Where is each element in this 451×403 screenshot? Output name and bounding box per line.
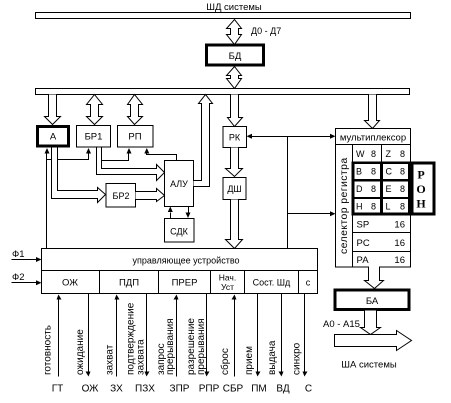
svg-text:8: 8 [371, 184, 376, 194]
svg-text:РА: РА [357, 255, 370, 266]
svg-text:ВД: ВД [276, 384, 289, 395]
component control unit управляющее устройство [42, 249, 318, 294]
svg-text:Сост. Шд: Сост. Шд [253, 278, 291, 288]
svg-text:выдача: выдача [267, 340, 278, 375]
svg-text:РК: РК [229, 133, 241, 143]
svg-text:прерывания: прерывания [196, 318, 207, 375]
buffer БА address buffer [335, 290, 409, 310]
node label Ф1 with arrow [12, 249, 42, 262]
svg-text:синхро: синхро [292, 342, 303, 375]
svg-text:прием: прием [244, 346, 255, 375]
svg-text:16: 16 [394, 255, 405, 266]
wire arrow bus2-РП bidirectional [128, 95, 143, 125]
wire arrow bus2-БР1 bidirectional [87, 95, 103, 125]
component ДШ decoder [223, 178, 246, 200]
wire arrow bus2 to A [45, 95, 61, 125]
wire signal сброс input [232, 295, 237, 377]
wire arrow РК to ДШ [226, 148, 243, 177]
wire arrow bus2 down to РК [228, 95, 243, 127]
svg-text:PC: PC [357, 238, 370, 249]
svg-text:W: W [356, 149, 365, 159]
node cell Нач Уст [219, 271, 245, 294]
wire long line from A node down to control unit [46, 160, 48, 249]
svg-text:захвата: захвата [136, 339, 147, 375]
wire arrow bus1-BD bidirectional [227, 20, 242, 45]
svg-text:прерывания: прерывания [165, 318, 176, 375]
wire signal ожидание output [86, 294, 91, 377]
svg-text:16: 16 [394, 220, 405, 231]
wire signal готовность input [57, 295, 62, 377]
svg-text:сброс: сброс [219, 348, 231, 375]
node cell Сост Шд [253, 271, 299, 294]
wire internal bus bar [36, 89, 410, 95]
svg-text:А0 - А15: А0 - А15 [323, 319, 360, 330]
wire junction vertical down to control unit [287, 137, 289, 249]
wire signal прием output [256, 294, 261, 377]
op-amp АЛУ arithmetic-logic unit box [165, 161, 194, 207]
svg-text:ШД системы: ШД системы [206, 2, 262, 13]
register БР1 [77, 126, 111, 148]
wire feedback into РП left arrow [102, 148, 132, 161]
svg-text:ГТ: ГТ [52, 384, 64, 395]
svg-text:мультиплексор: мультиплексор [340, 133, 406, 144]
node bottom pin labels ГТ ОЖ ЗХ ПЗХ ЗПР РПР СБР ПМ ВД С [52, 384, 312, 395]
svg-text:8: 8 [400, 202, 405, 212]
wire system data bus bar [36, 13, 411, 19]
svg-text:ОЖ: ОЖ [82, 384, 100, 395]
wire signal синхро output [303, 294, 308, 377]
svg-text:8: 8 [371, 149, 376, 159]
svg-text:Z: Z [386, 149, 392, 159]
wire system address bus big arrow [335, 331, 412, 351]
svg-text:ЗХ: ЗХ [110, 384, 123, 395]
svg-text:БА: БА [366, 296, 379, 307]
svg-text:Д0 - Д7: Д0 - Д7 [251, 26, 281, 36]
svg-text:D: D [356, 184, 363, 194]
svg-text:8: 8 [371, 167, 376, 177]
svg-text:захват: захват [105, 344, 116, 375]
wire arrow АЛУ output up to internal bus [194, 95, 213, 187]
register РК instruction register [223, 127, 247, 148]
node РОН side label box [412, 163, 434, 214]
wire signal разрешение прерывания output [205, 294, 210, 377]
node multiplexer title [336, 133, 411, 145]
wire arrow БА down to address bus [361, 311, 381, 335]
svg-text:Уст: Уст [221, 282, 234, 292]
wire arrow БР1 to АЛУ L-shaped [97, 148, 165, 181]
wire АЛУ-СДК up line [168, 207, 173, 219]
svg-text:C: C [386, 167, 393, 177]
svg-text:с: с [306, 278, 311, 288]
wire arrow A to БР2 L-shaped [52, 148, 106, 203]
svg-text:Ф2: Ф2 [12, 272, 25, 283]
svg-text:готовность: готовность [43, 325, 54, 375]
svg-text:Н: Н [416, 197, 426, 211]
wire arrow bus2 down to multiplexer [365, 95, 380, 129]
svg-text:АЛУ: АЛУ [170, 179, 188, 189]
wire arrow БР2 to АЛУ [136, 189, 165, 202]
svg-text:8: 8 [400, 184, 405, 194]
svg-text:8: 8 [371, 202, 376, 212]
wire feedback line into A and БР1 with arrows [45, 148, 92, 160]
svg-text:БД: БД [229, 51, 242, 62]
svg-text:управляющее устройство: управляющее устройство [132, 256, 239, 266]
node register selector column rotated label [338, 145, 353, 267]
wire arrow BD-bus2 bidirectional [227, 67, 242, 89]
svg-text:ЗПР: ЗПР [170, 384, 190, 395]
wire АЛУ top to РП right arrow [144, 148, 176, 161]
node cell ПДП [119, 271, 159, 294]
svg-text:ПРЕР: ПРЕР [172, 278, 198, 289]
node РОН bold register group B C D E H L [353, 163, 410, 214]
svg-text:А: А [50, 132, 57, 143]
node cell ОЖ [62, 271, 99, 294]
svg-text:Р: Р [417, 168, 424, 182]
wire arrow ДШ to control unit [226, 200, 243, 249]
svg-text:О: О [416, 182, 425, 196]
svg-text:Нач.: Нач. [219, 273, 236, 283]
wire signal выдача output [279, 294, 284, 377]
svg-text:РП: РП [128, 132, 141, 143]
svg-text:8: 8 [400, 167, 405, 177]
svg-text:ПЗХ: ПЗХ [135, 384, 155, 395]
wire signal запрос прерывания input [174, 295, 179, 377]
svg-text:ОЖ: ОЖ [62, 278, 78, 289]
node register SP [353, 220, 411, 233]
svg-text:8: 8 [400, 149, 405, 159]
node rotated signal name labels [43, 302, 303, 375]
svg-text:СБР: СБР [223, 384, 244, 395]
wire РК-multiplexer horizontal line with arrows both ends [247, 134, 336, 139]
node cell ПРЕР [172, 271, 211, 294]
svg-text:ША системы: ША системы [341, 360, 397, 371]
wire arrow multiplexer to БА [365, 267, 384, 289]
svg-text:ПМ: ПМ [251, 384, 267, 395]
register A accumulator [38, 127, 69, 147]
svg-text:БР1: БР1 [85, 132, 103, 143]
component multiplexer register file outer box [336, 129, 411, 268]
svg-text:С: С [305, 384, 312, 395]
register БР2 [106, 184, 136, 208]
svg-text:L: L [386, 202, 391, 212]
svg-text:селектор регистра: селектор регистра [338, 157, 350, 254]
svg-text:Ф1: Ф1 [12, 249, 25, 260]
svg-text:16: 16 [394, 238, 405, 249]
svg-text:ПДП: ПДП [119, 278, 139, 289]
svg-text:H: H [356, 202, 363, 212]
svg-text:ожидание: ожидание [75, 329, 86, 375]
svg-text:РПР: РПР [199, 384, 220, 395]
wire АЛУ-СДК down line [186, 207, 191, 219]
svg-text:БР2: БР2 [113, 191, 130, 201]
wire signal захват input [115, 295, 120, 377]
wire branch to register selector arrow [288, 211, 336, 216]
node register РА [357, 255, 406, 266]
svg-text:E: E [386, 184, 392, 194]
register РП flags [118, 126, 154, 148]
node register row W Z [356, 145, 405, 163]
buffer БД [207, 45, 264, 65]
svg-text:SP: SP [357, 220, 370, 231]
node register PC [353, 238, 411, 252]
svg-text:B: B [356, 167, 362, 177]
svg-text:ДШ: ДШ [227, 184, 241, 194]
svg-text:СДК: СДК [170, 227, 188, 237]
node label Ф2 with arrow [12, 272, 42, 285]
wire signal подтверждение захвата output [145, 294, 150, 377]
component СДК decimal correction [165, 219, 195, 243]
